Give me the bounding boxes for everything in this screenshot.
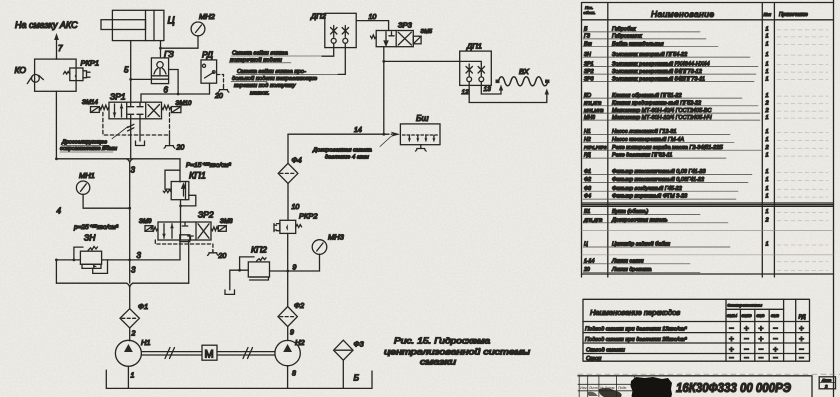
svg-text:13: 13	[484, 86, 492, 93]
svg-text:3: 3	[137, 251, 142, 260]
valve ZR3 body	[376, 31, 413, 47]
wire to DP1	[384, 60, 460, 62]
wire cylinder left port line 5	[130, 41, 132, 103]
svg-text:КО: КО	[15, 65, 27, 75]
junction dot ZR3	[382, 60, 385, 63]
svg-text:5: 5	[124, 66, 129, 75]
svg-text:ЭМ5: ЭМ5	[421, 29, 433, 35]
svg-text:1: 1	[766, 177, 769, 183]
svg-text:Смазка гайки винта: Смазка гайки винта	[232, 50, 289, 57]
ZR1 output line with restrictor	[130, 119, 132, 159]
svg-text:сопротивление Ø3мм: сопротивление Ø3мм	[60, 146, 117, 152]
wire centre line down	[129, 163, 131, 283]
svg-text:1: 1	[766, 137, 769, 143]
junction dot KP2 pilot	[238, 269, 241, 272]
wire DP2 outlet 1 to note A	[322, 43, 334, 56]
svg-text:каретки под ползушку: каретки под ползушку	[234, 83, 296, 89]
transition row 4	[586, 352, 804, 362]
svg-text:ДП2: ДП2	[310, 12, 327, 21]
sub headers	[727, 314, 806, 321]
svg-text:ЗР2: ЗР2	[198, 210, 214, 220]
ZR3 left section arrow	[384, 32, 394, 46]
svg-text:обозн.: обозн.	[584, 10, 596, 15]
svg-text:−: −	[773, 334, 778, 344]
svg-text:Цилиндр задней бабки: Цилиндр задней бабки	[612, 241, 670, 248]
air filter F3	[334, 340, 353, 360]
svg-text:РКР1,РКР2: РКР1,РКР2	[584, 145, 607, 150]
svg-text:МН3: МН3	[328, 233, 345, 242]
wire DP1 port13 to hose left	[481, 82, 501, 94]
RKR2 connector	[274, 224, 280, 232]
ZR3 left spring	[370, 35, 376, 39]
svg-text:Ф1: Ф1	[138, 302, 148, 311]
svg-text:Н1: Н1	[141, 338, 151, 347]
relief valve KP1 body	[171, 182, 189, 200]
svg-text:2: 2	[824, 384, 828, 389]
ZR1 right drain leg to 20	[169, 135, 171, 143]
wire KP1 feed down	[179, 159, 181, 182]
ZR2 right section cross	[198, 224, 209, 238]
ZR1 left section arrows	[113, 104, 124, 117]
svg-text:Примечание: Примечание	[779, 12, 808, 18]
small tank symbol KP2	[225, 290, 235, 295]
relief valve ZN body	[80, 251, 101, 268]
ZN outlet loop bottom	[93, 260, 108, 274]
svg-text:Насос лопастной Г12-31: Насос лопастной Г12-31	[612, 128, 676, 135]
KP1 spring	[163, 190, 171, 193]
svg-text:поперечной подачи: поперечной подачи	[230, 57, 283, 64]
svg-text:Ф1: Ф1	[584, 169, 591, 175]
svg-text:1: 1	[766, 194, 769, 200]
svg-text:1: 1	[766, 153, 769, 159]
svg-text:1: 1	[766, 52, 769, 58]
check valve KO ball and seat	[27, 74, 43, 83]
svg-text:ЭМ10: ЭМ10	[176, 101, 192, 107]
wire KP1 to ZR2	[180, 200, 182, 222]
svg-text:Наименование переходов: Наименование переходов	[590, 308, 680, 317]
junction dot KP1 out	[179, 205, 182, 208]
junction dot ZN pilot	[73, 259, 76, 262]
junction merge chevron on centre line	[127, 159, 133, 163]
ZR1 right solenoid EM10	[171, 107, 181, 113]
cylinder C body	[112, 10, 163, 40]
ZR1 centre section blocked ports	[128, 102, 143, 119]
wire MN1 to centre line	[83, 194, 130, 208]
svg-text:На смазку АКС: На смазку АКС	[15, 20, 78, 30]
DP2 metering unit 1	[331, 26, 338, 44]
svg-text:−: −	[799, 352, 804, 362]
svg-text:РКР2: РКР2	[299, 212, 318, 221]
wire main pressure line y159	[56, 158, 180, 160]
svg-text:1: 1	[766, 169, 769, 175]
wire junction to GZ lower port	[131, 78, 152, 80]
stamp blob lower	[652, 393, 671, 397]
svg-text:16К30Ф333 00 000РЭ: 16К30Ф333 00 000РЭ	[676, 380, 792, 395]
svg-text:20: 20	[218, 253, 227, 260]
KP1 outlet loop	[181, 195, 196, 206]
svg-text:Лист: Лист	[588, 386, 598, 390]
valve ZR2 body	[158, 222, 211, 240]
RKR1 spring	[63, 72, 69, 75]
svg-text:1: 1	[131, 373, 135, 380]
svg-text:централизованной системы: централизованной системы	[384, 347, 531, 357]
ZR1 drain dashed box	[103, 112, 170, 135]
dosing panel DP1 box	[460, 51, 492, 85]
svg-text:6: 6	[164, 86, 169, 95]
check valve KO body rectangle	[35, 59, 77, 91]
svg-text:маток.: маток.	[250, 90, 270, 96]
svg-text:смазки: смазки	[420, 357, 456, 367]
title block left grid	[578, 376, 634, 397]
relief valve KP2 body	[248, 262, 269, 280]
svg-text:Ц: Ц	[168, 16, 175, 27]
second table top border	[582, 205, 834, 207]
svg-text:20: 20	[176, 145, 185, 152]
Bsh internal dashed gallery	[403, 134, 438, 136]
wire line 6	[141, 93, 210, 95]
svg-text:Наименование: Наименование	[651, 9, 714, 19]
wire DP2 top to ZR3	[356, 21, 388, 31]
svg-text:МН2: МН2	[199, 12, 216, 21]
svg-text:10: 10	[369, 14, 377, 21]
wire pump2 suction	[287, 366, 289, 389]
junction dot pump2 line	[286, 270, 289, 273]
svg-text:РКР1: РКР1	[81, 59, 100, 68]
spindle head Bsh box	[400, 124, 440, 145]
svg-text:1: 1	[766, 129, 769, 135]
svg-text:7: 7	[58, 44, 63, 53]
svg-text:Фильтр пластинчатый 0,08 Г41-: Фильтр пластинчатый 0,08 Г41-23	[612, 168, 706, 175]
drain symbol 20 at ZR2	[208, 250, 219, 255]
svg-text:9: 9	[290, 330, 294, 337]
svg-text:+: +	[799, 323, 804, 333]
svg-text:−: −	[773, 352, 778, 362]
cylinder piston	[146, 10, 155, 40]
ZR2 right spring solenoid EM8	[211, 226, 226, 232]
RKR2 spring	[296, 225, 302, 228]
wire to gauge MN2	[161, 36, 199, 48]
list box	[819, 377, 835, 389]
ZR1 right spring	[162, 105, 171, 109]
ZR1 right section crossed arrows	[148, 105, 160, 117]
ink smudge left of stamp	[599, 388, 622, 397]
svg-text:ЭМ8: ЭМ8	[771, 314, 780, 318]
pump N2	[275, 340, 300, 365]
filter F4	[278, 163, 298, 183]
ZR3 solenoid EM15	[413, 36, 421, 44]
svg-text:1: 1	[766, 115, 769, 121]
wire ZR2 out to line y260	[179, 240, 181, 260]
wire left line to bottom corner	[55, 260, 57, 283]
svg-text:−: −	[744, 334, 749, 344]
svg-text:3: 3	[131, 166, 136, 175]
Bsh outlet arrows	[408, 136, 436, 142]
DP1 metering unit 1	[466, 64, 472, 82]
svg-text:Дозированная смазка: Дозированная смазка	[312, 148, 372, 154]
svg-text:+: +	[799, 334, 804, 344]
DP1 inner feed	[460, 61, 482, 64]
transition row 1	[585, 323, 804, 333]
DP1 metering unit 2	[478, 64, 484, 82]
pump N1	[115, 340, 141, 366]
svg-text:p=25⁺¹⁵кгс/см²: p=25⁺¹⁵кгс/см²	[73, 224, 119, 231]
svg-text:Ф2: Ф2	[294, 301, 305, 310]
svg-text:1: 1	[766, 186, 769, 192]
wire pump1 suction	[127, 366, 129, 388]
svg-text:12: 12	[462, 89, 470, 96]
svg-text:ЭМ9: ЭМ9	[139, 219, 152, 225]
wire KP2 out to pump line	[270, 270, 288, 272]
svg-text:ЗР3: ЗР3	[398, 21, 413, 30]
svg-text:M: M	[205, 349, 214, 361]
wire RD drain dashed	[217, 75, 224, 87]
svg-text:ЗН: ЗН	[84, 233, 96, 243]
svg-text:КП2: КП2	[251, 245, 267, 255]
svg-text:ЭМ10: ЭМ10	[742, 314, 753, 318]
svg-text:Фильтр воздушный Г45-22: Фильтр воздушный Г45-22	[612, 185, 682, 192]
svg-text:Фильтр пористый ФТМ 3-23: Фильтр пористый ФТМ 3-23	[612, 193, 688, 200]
Bsh drain symbol	[415, 145, 426, 151]
ZR2 drain dashed	[155, 240, 213, 253]
wire F3 to tank	[342, 360, 344, 388]
motor shaft right	[217, 348, 275, 359]
wire F2 to pump2	[287, 327, 289, 341]
svg-text:+: +	[729, 334, 734, 344]
svg-text:Электромагниты: Электромагниты	[728, 303, 763, 308]
svg-text:14: 14	[354, 127, 362, 134]
second table bottom border	[582, 273, 834, 275]
KP2 spring	[257, 257, 266, 261]
ZR2 left section arrows	[162, 224, 174, 238]
wire cylinder right port down	[160, 41, 162, 58]
parts table header row	[582, 5, 834, 20]
svg-text:ЭМ14: ЭМ14	[727, 314, 737, 318]
transition row 3	[586, 344, 804, 354]
flexible hose VX	[496, 77, 550, 86]
electric motor M	[202, 345, 217, 360]
junction dots ZN line	[55, 259, 58, 262]
arrow into Bsh	[391, 132, 401, 137]
svg-text:ЗР1: ЗР1	[110, 92, 126, 102]
wire ZR3 down	[383, 47, 385, 135]
ZR1 left spring	[100, 105, 109, 109]
transitions table frame	[583, 299, 810, 361]
svg-text:Стоп: Стоп	[586, 356, 602, 362]
svg-text:P=15⁺¹⁵кгс/см²: P=15⁺¹⁵кгс/см²	[186, 162, 232, 169]
stamp dark blob	[631, 377, 673, 397]
wire F4 top to Bsh line14	[288, 133, 386, 135]
svg-text:ВХ: ВХ	[519, 67, 530, 76]
parts table outer frame	[582, 3, 834, 278]
merge chevron into filter line	[127, 283, 133, 309]
svg-text:РД: РД	[202, 50, 213, 60]
svg-text:Бш: Бш	[416, 113, 429, 123]
ZR3 right section cross	[398, 32, 411, 45]
svg-text:МН1: МН1	[79, 171, 95, 180]
svg-text:ДП1: ДП1	[466, 42, 482, 51]
svg-text:ГЗ: ГЗ	[164, 49, 175, 59]
KP2 drain leg	[230, 270, 240, 290]
svg-text:ДП1,ДП2: ДП1,ДП2	[583, 217, 603, 222]
DP2 metering unit 2	[342, 26, 349, 44]
svg-text:1: 1	[766, 69, 769, 75]
svg-text:РД: РД	[799, 315, 806, 321]
wire MN3 to line	[288, 254, 320, 271]
svg-text:10: 10	[292, 204, 300, 211]
svg-text:Н2: Н2	[295, 338, 305, 347]
svg-text:−: −	[759, 352, 764, 362]
svg-text:1: 1	[766, 242, 769, 248]
svg-text:Ф4: Ф4	[292, 156, 302, 165]
svg-text:Рис. 15. Гидросхема: Рис. 15. Гидросхема	[394, 336, 490, 346]
svg-text:−: −	[744, 352, 749, 362]
svg-text:+: +	[759, 334, 764, 344]
ZR1 left solenoid EM14	[91, 107, 100, 113]
svg-text:Кол: Кол	[764, 12, 772, 17]
svg-text:КП1,КП2: КП1,КП2	[584, 101, 602, 106]
leader line restrictor note	[112, 127, 128, 139]
gauge MN3	[312, 240, 327, 255]
arrow up hose left	[499, 85, 503, 91]
filter F1	[120, 309, 139, 328]
wire DP2 outlet 2 to note B	[338, 43, 345, 74]
tank B outline	[106, 370, 372, 388]
svg-text:Фильтр пластинчатый 0,08Г41-2: Фильтр пластинчатый 0,08Г41-22	[612, 176, 704, 183]
wire ZR2 drain to y283	[188, 240, 190, 283]
wire RD bottom to line6	[209, 83, 211, 94]
wire line6 into ZR1 top	[140, 94, 142, 102]
motor shaft left	[141, 348, 202, 359]
svg-text:2: 2	[765, 145, 769, 151]
ZR2 left spring solenoid EM9	[145, 226, 158, 232]
svg-text:Подп.: Подп.	[618, 386, 627, 390]
drain symbol 20 at RD	[218, 87, 229, 93]
dosing panel DP2 box	[325, 13, 356, 47]
faint dashed line above title block	[578, 373, 840, 375]
parts table bottom border	[582, 203, 834, 205]
wire F1 to pump1	[129, 328, 131, 341]
svg-text:Дросселирующее: Дросселирующее	[61, 140, 107, 146]
svg-text:Смазка гайки винта про-: Смазка гайки винта про-	[237, 68, 306, 75]
flow relay RKR2 box	[280, 220, 296, 233]
wire KO bottom down to main line	[55, 91, 57, 159]
svg-text:МН1,МН2: МН1,МН2	[584, 108, 604, 113]
wire filter F4 riser	[287, 134, 289, 220]
svg-text:1: 1	[766, 41, 769, 47]
svg-text:ЭМ14: ЭМ14	[82, 100, 98, 106]
small tank symbol under ZR1	[136, 141, 145, 146]
svg-text:2: 2	[765, 217, 769, 223]
ZR2 centre ports	[180, 222, 194, 242]
title block scribbles	[580, 386, 627, 390]
wire ZN line y260	[56, 259, 180, 261]
title block top border	[578, 376, 812, 397]
svg-text:Подвод смазки при давлении 1: Подвод смазки при давлении 13кгс/см²	[585, 327, 688, 333]
wire GZ out to line 6	[169, 70, 179, 95]
sheet frame right edge	[833, 0, 835, 397]
svg-text:1: 1	[766, 34, 769, 40]
flow relay RKR1 box	[70, 68, 83, 81]
svg-text:4: 4	[57, 207, 62, 216]
valve ZR1 body	[109, 102, 162, 119]
junction dot MN1 tee	[128, 207, 131, 210]
svg-text:Лист: Лист	[821, 379, 831, 383]
svg-text:+: +	[744, 323, 749, 333]
svg-text:ЭМ9: ЭМ9	[757, 314, 766, 318]
svg-text:1: 1	[766, 209, 769, 215]
wire pump2 riser	[287, 233, 289, 306]
svg-text:давление 4 атм: давление 4 атм	[325, 155, 369, 161]
pressure relay RD box	[201, 60, 217, 83]
svg-text:2: 2	[765, 101, 769, 107]
wire return line y283	[56, 282, 188, 284]
svg-text:+: +	[759, 323, 764, 333]
svg-text:Изм: Изм	[580, 386, 587, 390]
wire to lubrication AKC with arrow	[54, 33, 59, 59]
filter F2	[278, 307, 297, 327]
svg-text:1: 1	[766, 61, 769, 67]
KP1 pilot loop	[165, 170, 180, 189]
ZR1 tank port stub	[139, 119, 141, 141]
svg-text:2: 2	[131, 331, 136, 338]
svg-text:1: 1	[766, 93, 769, 99]
pressure gauge MN2	[191, 22, 205, 36]
svg-text:Подвод смазки при давлении 2: Подвод смазки при давлении 25кгс/см²	[585, 337, 688, 343]
svg-text:Б: Б	[354, 373, 360, 383]
hydraulic lock GZ	[151, 58, 168, 84]
svg-text:Отвод смазки: Отвод смазки	[586, 348, 626, 354]
gauge MN1	[76, 181, 89, 194]
junction dot line5	[129, 78, 132, 81]
junction dot MN2 branch	[159, 47, 162, 50]
svg-text:−: −	[773, 323, 778, 333]
svg-text:ЭМ8: ЭМ8	[220, 219, 233, 225]
svg-text:дольной подачи направляющие: дольной подачи направляющие	[232, 75, 318, 82]
arrow up hose right	[545, 89, 549, 95]
wire DP1 port12 under hose	[469, 82, 547, 103]
svg-text:1: 1	[766, 76, 769, 82]
wire KO top to arrow	[56, 58, 58, 59]
ZN pilot loop	[74, 247, 83, 260]
junction dot GZ line6	[177, 93, 180, 96]
svg-text:КП1: КП1	[189, 171, 206, 181]
transition row 2	[585, 334, 804, 344]
junction dot left line	[55, 157, 58, 160]
restrictor 3mm ticks	[128, 124, 134, 131]
svg-text:−: −	[729, 352, 734, 362]
svg-text:Насос шестеренный ГМ-4А: Насос шестеренный ГМ-4А	[612, 136, 684, 143]
drain symbol 20 at ZR1	[164, 143, 175, 149]
svg-text:3: 3	[131, 266, 136, 275]
svg-text:20: 20	[214, 93, 223, 100]
svg-text:Клапан предохранит-ный ПГ52-22: Клапан предохранит-ный ПГ52-22	[612, 100, 701, 107]
KP2 pilot loop	[240, 257, 255, 270]
RKR1 electric connector	[83, 71, 90, 78]
ZN spring top	[88, 246, 98, 250]
svg-text:8: 8	[292, 371, 296, 378]
svg-text:−: −	[729, 323, 734, 333]
cylinder rod	[101, 20, 146, 30]
svg-text:Ф3: Ф3	[354, 340, 365, 349]
svg-text:1: 1	[766, 27, 769, 33]
svg-text:2: 2	[765, 108, 769, 114]
